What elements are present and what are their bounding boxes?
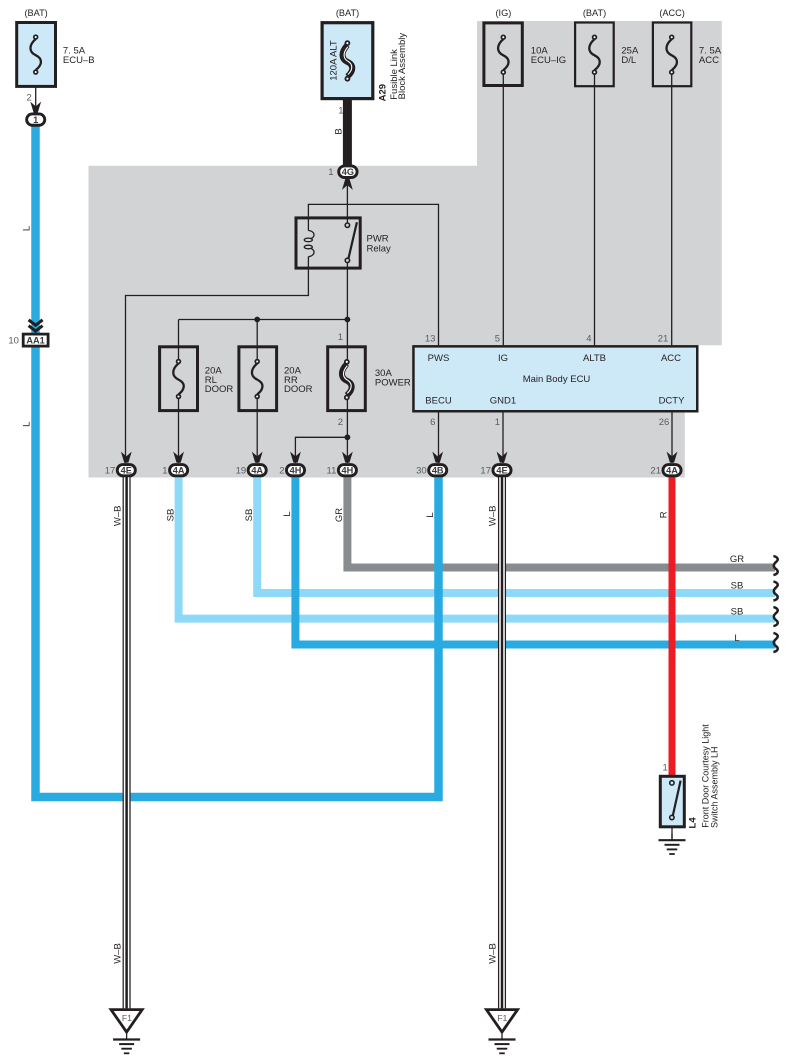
svg-text:21: 21: [650, 466, 661, 477]
svg-text:4E: 4E: [496, 465, 507, 475]
svg-text:(ACC): (ACC): [659, 8, 685, 18]
svg-text:W–B: W–B: [488, 506, 499, 527]
svg-text:IG: IG: [498, 353, 508, 364]
svg-text:ACC: ACC: [661, 353, 681, 364]
svg-text:13: 13: [425, 334, 436, 345]
svg-text:2: 2: [279, 466, 284, 477]
svg-text:19: 19: [236, 466, 247, 477]
svg-text:L: L: [21, 226, 32, 231]
svg-text:5: 5: [495, 334, 500, 345]
svg-text:11: 11: [327, 466, 337, 477]
svg-text:1: 1: [495, 417, 500, 428]
svg-text:17: 17: [105, 466, 116, 477]
svg-text:SB: SB: [244, 509, 255, 522]
svg-text:L: L: [21, 422, 32, 427]
svg-text:2: 2: [338, 417, 343, 428]
svg-text:4B: 4B: [432, 465, 444, 475]
svg-text:4G: 4G: [342, 167, 354, 177]
svg-text:21: 21: [658, 334, 669, 345]
svg-text:SB: SB: [731, 607, 744, 618]
svg-text:D/L: D/L: [621, 55, 636, 66]
svg-text:F1: F1: [122, 1013, 132, 1023]
svg-text:Block Assembly: Block Assembly: [397, 33, 408, 100]
svg-text:GR: GR: [730, 554, 744, 565]
svg-text:4: 4: [586, 334, 591, 345]
svg-text:1: 1: [162, 466, 167, 477]
svg-text:4H: 4H: [342, 465, 354, 475]
svg-text:Switch Assembly LH: Switch Assembly LH: [709, 746, 719, 828]
svg-text:(BAT): (BAT): [336, 8, 359, 18]
svg-text:DOOR: DOOR: [284, 384, 313, 395]
svg-text:ALTB: ALTB: [583, 353, 606, 364]
svg-text:L4: L4: [688, 817, 699, 829]
svg-text:10: 10: [8, 336, 19, 347]
svg-text:AA1: AA1: [26, 336, 44, 346]
svg-text:4A: 4A: [173, 465, 185, 475]
svg-text:F1: F1: [497, 1013, 507, 1023]
svg-text:L: L: [282, 511, 293, 516]
svg-text:B: B: [333, 128, 344, 134]
svg-text:DCTY: DCTY: [659, 395, 686, 406]
svg-text:L: L: [734, 633, 739, 644]
svg-text:30: 30: [416, 466, 427, 477]
svg-text:Relay: Relay: [367, 244, 392, 255]
svg-text:L: L: [425, 512, 436, 517]
svg-text:W–B: W–B: [112, 943, 123, 964]
svg-text:ECU–IG: ECU–IG: [531, 55, 566, 66]
svg-text:ECU–B: ECU–B: [63, 55, 95, 66]
svg-text:BECU: BECU: [425, 395, 452, 406]
svg-text:POWER: POWER: [375, 378, 411, 389]
svg-text:1: 1: [33, 115, 38, 125]
svg-text:(IG): (IG): [495, 8, 511, 18]
svg-text:6: 6: [430, 417, 435, 428]
svg-text:GR: GR: [334, 508, 345, 522]
svg-text:4E: 4E: [121, 465, 132, 475]
svg-text:(BAT): (BAT): [583, 8, 606, 18]
svg-text:GND1: GND1: [490, 395, 516, 406]
svg-text:W–B: W–B: [112, 506, 123, 527]
svg-text:SB: SB: [731, 580, 744, 591]
svg-text:ACC: ACC: [699, 55, 719, 66]
svg-text:A29: A29: [377, 84, 388, 101]
svg-text:2: 2: [27, 92, 32, 103]
svg-text:1: 1: [328, 167, 333, 178]
svg-text:4H: 4H: [290, 465, 302, 475]
svg-text:4A: 4A: [666, 465, 678, 475]
svg-text:26: 26: [659, 417, 670, 428]
svg-text:DOOR: DOOR: [205, 384, 234, 395]
svg-text:4A: 4A: [251, 465, 263, 475]
svg-text:1: 1: [663, 763, 668, 774]
svg-text:17: 17: [480, 466, 491, 477]
svg-text:R: R: [659, 511, 670, 518]
svg-text:(BAT): (BAT): [24, 8, 47, 18]
svg-text:SB: SB: [165, 509, 176, 522]
svg-text:W–B: W–B: [488, 943, 499, 964]
svg-text:120A ALT: 120A ALT: [329, 40, 340, 81]
svg-text:1: 1: [338, 106, 343, 117]
svg-text:PWS: PWS: [428, 353, 450, 364]
svg-text:1: 1: [338, 332, 343, 343]
svg-text:Main Body ECU: Main Body ECU: [523, 374, 591, 385]
